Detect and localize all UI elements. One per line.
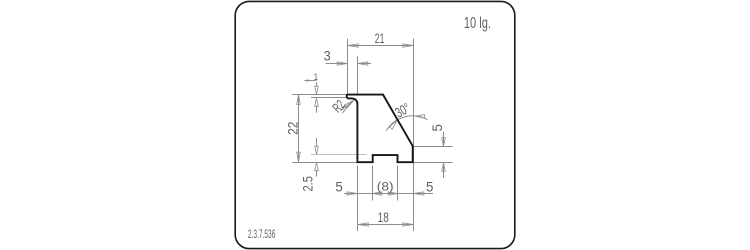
extension line h6 (right bottom) bbox=[414, 162, 453, 164]
svg-text:2.3.7.536: 2.3.7.536 bbox=[248, 228, 275, 242]
dim line 2.5 lower tail bbox=[316, 170, 318, 177]
extension line v2 (21 right / angle ref / 18 right) bbox=[413, 39, 415, 231]
extension line v7 (notch left) bbox=[372, 166, 374, 201]
arrow angle arc right (points left at vline) bbox=[416, 115, 425, 119]
arrow 2.5 bottom (points up) bbox=[315, 163, 319, 171]
R2 leader line a bbox=[341, 100, 354, 110]
arrow 5L (points right) bbox=[347, 192, 357, 195]
text 30deg rotated bbox=[392, 100, 413, 121]
extension line h3 (notch top, light) bbox=[311, 154, 367, 156]
svg-text:1: 1 bbox=[314, 71, 318, 82]
dim line 2.5 upper tail bbox=[316, 138, 318, 147]
text 21 bbox=[375, 31, 385, 47]
text 3 bbox=[324, 48, 331, 64]
extension line h5 (right corner) bbox=[414, 146, 453, 148]
arrow 2.5 top (points down) bbox=[315, 146, 319, 154]
extension line v6 (bottom left) bbox=[357, 166, 359, 232]
svg-text:3: 3 bbox=[324, 48, 331, 64]
dim line 1 (lip) upper tail bbox=[316, 82, 318, 87]
extension line v8 (notch right) bbox=[397, 166, 399, 201]
dim line 3 left tail bbox=[326, 63, 348, 65]
svg-text:21: 21 bbox=[375, 31, 385, 47]
dim line 21 bbox=[348, 45, 414, 47]
angle arc 30deg bbox=[386, 116, 427, 131]
svg-text:22: 22 bbox=[285, 122, 301, 135]
svg-text:5: 5 bbox=[429, 124, 444, 132]
text 5 bottom-left bbox=[335, 179, 343, 194]
svg-text:10 lg.: 10 lg. bbox=[464, 14, 491, 31]
text 22 rotated bbox=[285, 122, 301, 135]
extension line h1 (top left) bbox=[292, 94, 346, 96]
arrow 5 right-side bottom (points up) bbox=[442, 163, 446, 172]
svg-text:(8): (8) bbox=[377, 179, 394, 193]
profile outline (thick) bbox=[347, 95, 413, 163]
text 2.5 rotated bbox=[301, 176, 316, 191]
arrow (8) right (points right) bbox=[388, 192, 397, 195]
extension line h4 (bottom left) bbox=[292, 162, 356, 164]
arrow 5R bottom (points left) bbox=[414, 192, 424, 195]
R2 leader line b bbox=[342, 100, 353, 113]
extension line v3 (3 right) bbox=[357, 56, 359, 94]
dim line 22 bbox=[298, 95, 300, 161]
arrow R2 leader tip bbox=[345, 100, 354, 107]
arrow 22 top (points up) bbox=[297, 95, 301, 105]
dim line 5-(8)-5 bbox=[344, 193, 433, 195]
extension line v1 (21 left) bbox=[347, 39, 349, 94]
card border bbox=[235, 1, 515, 248]
extension line h2 (lip underside) bbox=[311, 97, 346, 99]
text 5 bottom-right bbox=[426, 179, 434, 194]
dim line 5 right lower tail bbox=[443, 166, 445, 179]
dim line 5 right upper tail bbox=[443, 132, 445, 144]
leader shelf (1) bbox=[305, 80, 317, 82]
svg-text:R2: R2 bbox=[330, 98, 348, 116]
arrow 1 top (points down) bbox=[315, 86, 319, 94]
arrow 18 right bbox=[403, 223, 414, 226]
arrow 3 left (points right) bbox=[337, 62, 347, 65]
arrow angle arc left (points up-right at slant) bbox=[390, 120, 398, 129]
dim line 3 right tail bbox=[358, 63, 372, 65]
arrow 21 right bbox=[403, 44, 414, 47]
arrow 22 bottom (points down) bbox=[297, 152, 301, 162]
svg-text:5: 5 bbox=[426, 179, 434, 194]
arrow 1 bottom (points up) bbox=[315, 98, 319, 106]
arrow 5 right-side top (points down) bbox=[442, 138, 446, 147]
svg-text:5: 5 bbox=[335, 179, 343, 194]
arrow 18 left bbox=[358, 223, 369, 226]
arrow 3 right (points left) bbox=[358, 62, 368, 65]
text (8) bbox=[377, 179, 394, 193]
arrowheads bbox=[297, 44, 446, 226]
text 5 right-side rotated bbox=[429, 124, 444, 132]
dim line 18 bbox=[358, 224, 414, 226]
text 18 bbox=[378, 209, 389, 225]
svg-text:18: 18 bbox=[378, 209, 389, 225]
arrow 21 left bbox=[348, 44, 359, 47]
label: 10 lg. bbox=[464, 14, 491, 31]
svg-text:2.5: 2.5 bbox=[301, 176, 316, 191]
text R2 rotated bbox=[330, 98, 348, 116]
solid small arrow on leader shelf (points left) bbox=[304, 79, 309, 82]
digit 1 above shelf bbox=[314, 71, 318, 82]
arrow (8) left (points left) bbox=[373, 192, 382, 195]
dim line 1 (lip) lower tail bbox=[316, 106, 318, 113]
label: 2.3.7.536 bbox=[248, 228, 275, 242]
